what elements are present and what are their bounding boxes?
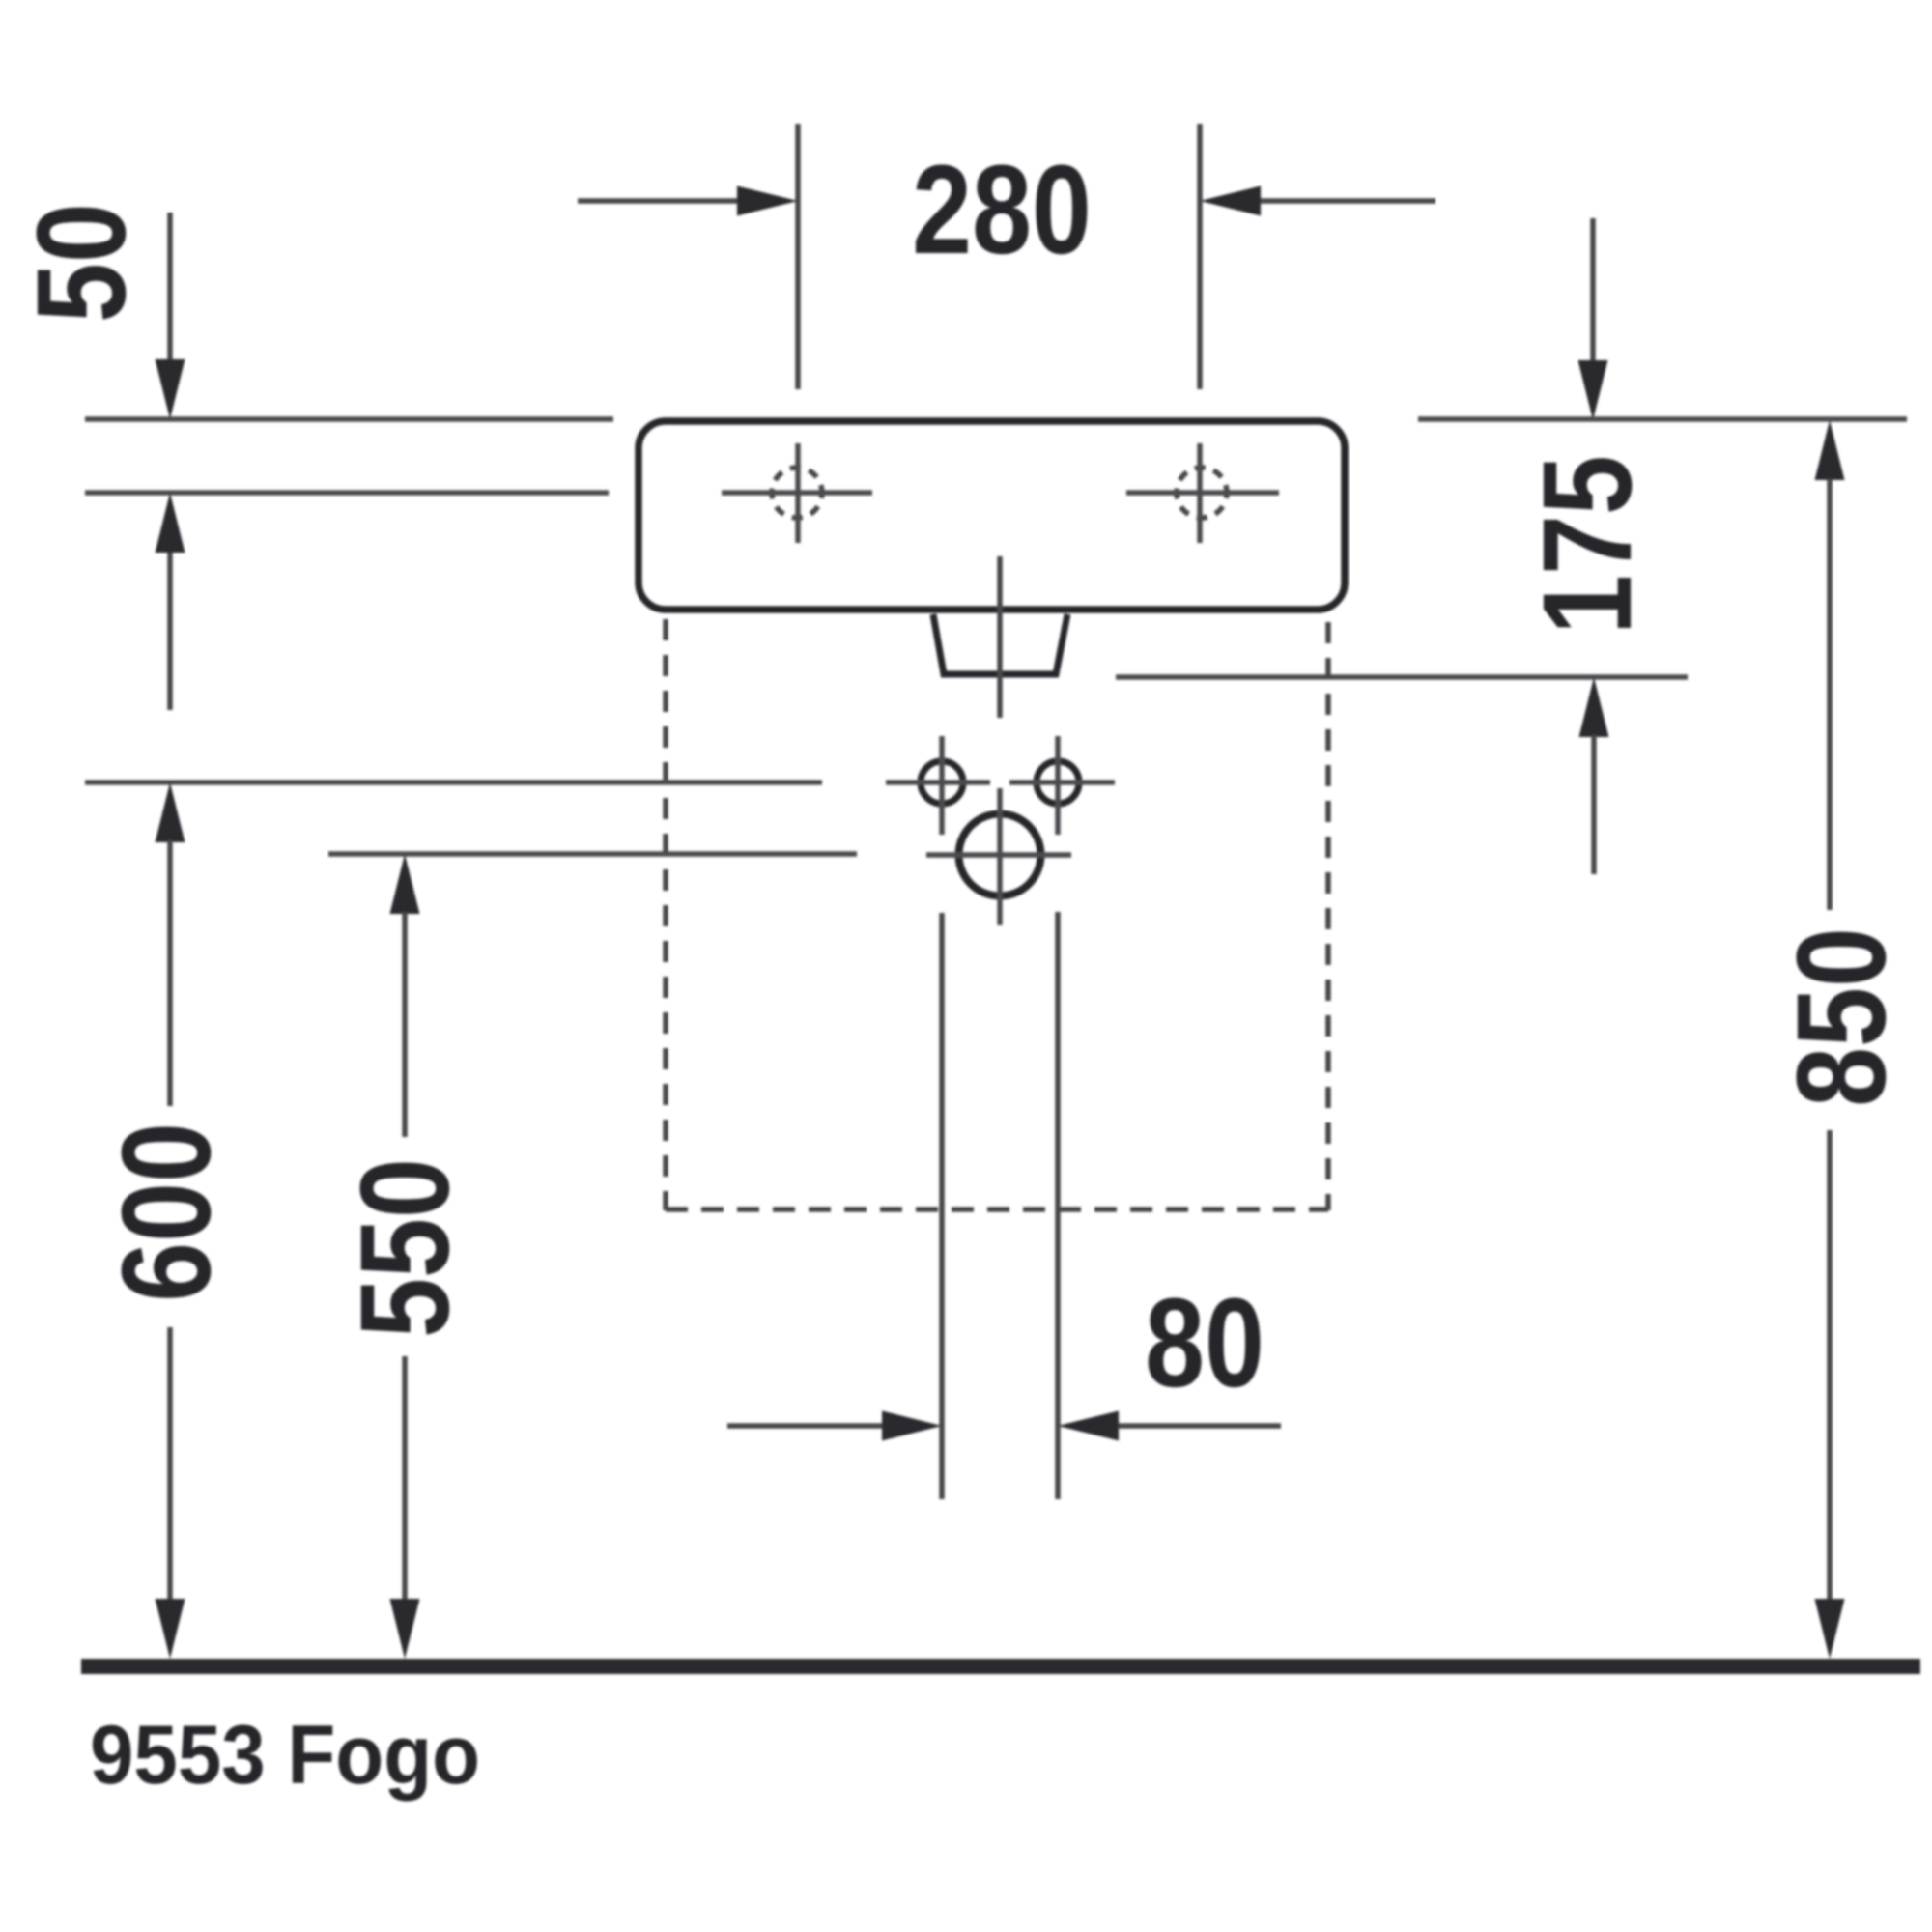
dimension 280: left arrowhead (points right) xyxy=(737,186,798,216)
faucet hole left: vertical crosshair xyxy=(795,443,801,543)
mounting hole left: horizontal crosshair xyxy=(886,780,990,785)
cabinet dashed outline: left vertical xyxy=(663,619,668,1210)
faucet hole left: dashed circle xyxy=(772,468,822,518)
dimension 550: up arrowhead xyxy=(390,854,420,914)
dimension 175: upper dimension line xyxy=(1590,218,1596,363)
dimension 175: lower shaft xyxy=(1591,735,1597,874)
dimension 550: upper shaft xyxy=(402,912,408,1137)
wire: basin top extension line right xyxy=(1418,416,1907,422)
dimension 80: left vertical line xyxy=(939,913,945,1499)
dimension 80: right arrow line xyxy=(1118,1423,1281,1429)
dimension 600: lower shaft xyxy=(167,1327,173,1604)
drain pipe circle (big) xyxy=(959,814,1041,896)
dimension 550: down arrowhead at floor xyxy=(390,1599,420,1659)
drain pipe circle: vertical crosshair xyxy=(997,788,1003,925)
dimension 50: upper extension/dimension line xyxy=(167,213,173,361)
dimension 80: left arrowhead (points right) xyxy=(882,1411,942,1441)
wire: drain circle center extension line left (550 ref) xyxy=(328,851,857,857)
dimension 50: up arrowhead xyxy=(156,493,185,553)
svg-text:550: 550 xyxy=(333,1158,475,1338)
svg-text:600: 600 xyxy=(95,1122,237,1302)
dimension 850: down arrowhead at floor xyxy=(1815,1599,1845,1659)
mounting hole right: vertical crosshair xyxy=(1055,736,1061,835)
dimension 280: right arrowhead (points left) xyxy=(1200,186,1261,216)
dimension 850: lower shaft xyxy=(1827,1130,1833,1604)
dimension 80: right vertical line xyxy=(1055,912,1061,1499)
dimension 600: down arrowhead at floor xyxy=(156,1599,185,1659)
dimension 850: up arrowhead at top xyxy=(1815,420,1845,480)
dimension 50: down arrowhead xyxy=(156,359,185,419)
dimension 80: left arrow line xyxy=(727,1423,886,1429)
drain centerline axis xyxy=(997,556,1003,718)
faucet hole right: vertical crosshair xyxy=(1197,443,1203,543)
dimension 80: right arrowhead (points left) xyxy=(1058,1411,1119,1441)
wire: faucet-hole center extension line left xyxy=(85,490,609,496)
dimension 280: left arrow line xyxy=(578,198,739,204)
wire: mounting holes center extension line left (600 ref) xyxy=(85,780,822,785)
dimension 280: right arrow line xyxy=(1259,198,1435,204)
faucet hole right: horizontal crosshair xyxy=(1126,490,1279,496)
faucet hole left: horizontal crosshair xyxy=(722,490,872,496)
mounting hole right: horizontal crosshair xyxy=(1009,780,1115,785)
drain pipe circle: horizontal crosshair xyxy=(926,852,1071,858)
cabinet dashed outline: right vertical xyxy=(1325,622,1331,1210)
drain trapezoid below basin xyxy=(933,614,1067,674)
mounting hole right: circle xyxy=(1037,761,1079,804)
svg-text:175: 175 xyxy=(1516,455,1658,635)
dimension 50: lower shaft xyxy=(167,551,173,710)
dimension 600: upper shaft xyxy=(167,840,173,1106)
wire: basin top extension line left (wall line upper) xyxy=(85,416,613,422)
svg-text:50: 50 xyxy=(10,203,152,323)
dimension 175: down arrowhead at basin top xyxy=(1578,360,1608,420)
basin outline (rounded rectangle) xyxy=(639,421,1345,610)
faucet hole right: dashed circle xyxy=(1177,468,1227,518)
mounting hole left: vertical crosshair xyxy=(939,736,945,835)
dimension 280: left extension vertical xyxy=(795,124,801,389)
dimension 175: up arrowhead at drain bottom xyxy=(1579,677,1609,737)
dimension 550: lower shaft xyxy=(402,1356,408,1604)
svg-text:280: 280 xyxy=(912,138,1092,280)
floor line (thick) xyxy=(81,1659,1920,1674)
dimension 280: right extension vertical xyxy=(1197,124,1203,389)
mounting hole left: circle xyxy=(921,761,963,804)
svg-text:850: 850 xyxy=(1770,927,1912,1107)
svg-text:80: 80 xyxy=(1145,1271,1264,1413)
dimension 600: up arrowhead xyxy=(156,782,185,842)
wire: drain bottom extension line right xyxy=(1116,674,1688,680)
cabinet dashed outline: bottom horizontal xyxy=(666,1207,1328,1212)
dimension 850: upper shaft xyxy=(1827,479,1833,910)
svg-text:9553 Fogo: 9553 Fogo xyxy=(90,1708,480,1801)
